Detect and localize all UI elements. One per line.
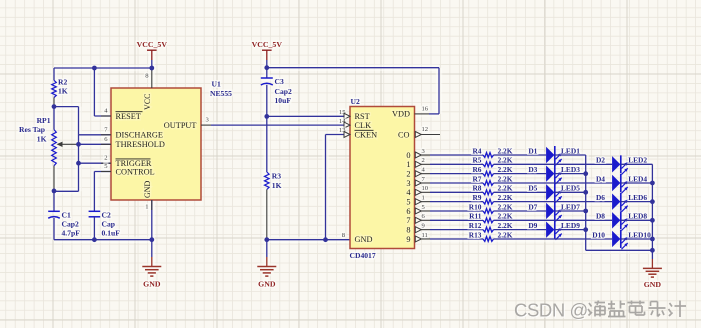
wire pin 2 to R5	[430, 163, 483, 165]
ground symbol (LED return)	[643, 250, 662, 289]
svg-text:R12: R12	[469, 221, 482, 230]
watermark CSDN	[514, 300, 686, 322]
wire D1 cathode to rail	[555, 154, 586, 156]
node R2 / RP1 junction	[52, 104, 57, 109]
wire D4 cathode to rail	[621, 182, 653, 184]
wire U1 ground rail	[54, 239, 152, 241]
svg-text:LED3: LED3	[561, 165, 580, 174]
LED D5	[528, 183, 580, 202]
svg-text:1: 1	[145, 204, 148, 211]
svg-text:3: 3	[406, 179, 410, 188]
wire pin 3 to R4	[430, 154, 483, 156]
svg-text:2.2K: 2.2K	[498, 221, 513, 230]
svg-text:CD4017: CD4017	[350, 251, 376, 260]
wire R9 to D6	[494, 201, 613, 203]
wire D8 cathode to rail	[621, 219, 653, 221]
svg-text:GND: GND	[258, 280, 276, 289]
node rail junction row 4	[650, 181, 655, 186]
svg-text:LED10: LED10	[628, 230, 651, 239]
wire pin 5 to R10	[430, 210, 483, 212]
LED D2	[596, 155, 647, 174]
svg-text:R2: R2	[58, 78, 67, 87]
svg-text:LED7: LED7	[561, 202, 580, 211]
svg-text:0: 0	[406, 151, 410, 160]
svg-text:U1: U1	[212, 80, 221, 89]
U1 pin 4 RESET	[101, 108, 143, 121]
resistor R6 2.2K	[472, 165, 512, 176]
wire left LED cathode rail	[585, 155, 587, 250]
svg-text:2.2K: 2.2K	[498, 202, 513, 211]
node rail junction row 10	[650, 237, 655, 242]
wire D6 cathode to rail	[621, 201, 653, 203]
wire top rail VCC to U1	[54, 67, 152, 69]
LED D8	[596, 211, 647, 230]
svg-text:CONTROL: CONTROL	[116, 167, 155, 176]
svg-text:2.2K: 2.2K	[498, 174, 513, 183]
wire R2 bottom to junction	[53, 98, 55, 107]
U2 output 2 pin 4	[406, 167, 430, 179]
wire pin 4 to R6	[430, 173, 483, 175]
svg-text:2.2K: 2.2K	[498, 165, 513, 174]
wire D3 cathode to rail	[555, 173, 586, 175]
svg-text:THRESHOLD: THRESHOLD	[116, 140, 165, 149]
wire vertical THRESHOLD/TRIGGER rail	[78, 135, 80, 192]
wire rail bottom link	[586, 249, 653, 251]
U2 output 1 pin 2	[406, 157, 430, 169]
wire pin 10 to R8	[430, 191, 483, 193]
svg-text:1K: 1K	[58, 87, 68, 96]
svg-text:CKEN: CKEN	[355, 130, 378, 139]
svg-text:R6: R6	[472, 165, 481, 174]
svg-text:8: 8	[406, 225, 410, 234]
resistor R8 2.2K	[472, 184, 512, 195]
node C2 / gnd rail	[92, 237, 97, 242]
wire D10 cathode to rail	[621, 238, 653, 240]
node rail junction row 8	[650, 218, 655, 223]
svg-text:4.7pF: 4.7pF	[62, 229, 81, 238]
svg-text:LED8: LED8	[628, 212, 647, 221]
wire R5 to D2	[494, 163, 613, 165]
node C3 / RST branch	[264, 114, 269, 119]
U1 pin 6 THRESHOLD	[101, 136, 165, 149]
svg-text:2: 2	[422, 157, 425, 164]
node VCC rail / R2 junction	[92, 66, 97, 71]
svg-text:VCC_5V: VCC_5V	[137, 40, 168, 49]
wire R10 to D7	[494, 210, 547, 212]
wire VCC rail to U2 VDD	[267, 68, 439, 114]
svg-text:0.1uF: 0.1uF	[102, 229, 121, 238]
U2 pin 13 CKEN	[339, 127, 377, 139]
svg-text:C1: C1	[62, 211, 71, 220]
resistor R13 2.2K	[469, 230, 513, 241]
wire R4 to D1	[494, 154, 547, 156]
svg-text:CO: CO	[398, 130, 410, 139]
svg-text:DISCHARGE: DISCHARGE	[116, 131, 163, 140]
node rails junction	[650, 248, 655, 253]
svg-text:GND: GND	[644, 280, 662, 289]
svg-text:CLK: CLK	[355, 121, 372, 130]
LED D10	[592, 230, 651, 249]
svg-text:11: 11	[422, 232, 428, 239]
svg-text:U2: U2	[351, 97, 360, 106]
svg-text:Cap2: Cap2	[62, 220, 80, 229]
U1 pin 8 VCC	[143, 68, 152, 110]
wire U2 ground rail	[267, 239, 350, 241]
svg-text:12: 12	[422, 126, 429, 133]
svg-text:R8: R8	[472, 184, 481, 193]
svg-text:D4: D4	[596, 174, 605, 183]
svg-text:R10: R10	[469, 202, 482, 211]
svg-text:6: 6	[406, 207, 410, 216]
svg-text:CSDN @: CSDN @	[514, 300, 588, 321]
IC U2 CD4017 body	[350, 97, 415, 260]
svg-text:D1: D1	[528, 146, 537, 155]
wire U1 pin 5 to C2	[94, 171, 111, 173]
wire pin 1 to R9	[430, 201, 483, 203]
node pin2 junction	[76, 161, 81, 166]
svg-text:LED1: LED1	[561, 146, 580, 155]
node rail junction row 5	[583, 190, 588, 195]
svg-text:2.2K: 2.2K	[498, 146, 513, 155]
wire R11 to D8	[494, 219, 613, 221]
wire R7 to D4	[494, 182, 613, 184]
svg-text:2.2K: 2.2K	[498, 156, 513, 165]
svg-text:LED5: LED5	[561, 184, 580, 193]
svg-text:1K: 1K	[37, 134, 47, 143]
svg-text:D6: D6	[596, 193, 605, 202]
node rail junction row 3	[583, 171, 588, 176]
resistor R4 2.2K	[472, 146, 512, 157]
svg-text:VDD: VDD	[392, 110, 410, 119]
ground symbol (under R3)	[257, 240, 276, 289]
svg-text:R13: R13	[469, 230, 482, 239]
wire CKEN to ground	[325, 135, 327, 240]
wire D9 cathode to rail	[555, 229, 586, 231]
svg-text:LED4: LED4	[628, 174, 647, 183]
U2 pin 12 CO	[398, 126, 440, 139]
svg-text:VCC_5V: VCC_5V	[252, 40, 283, 49]
svg-text:VCC: VCC	[143, 94, 152, 110]
svg-text:D2: D2	[596, 156, 605, 165]
U2 pin 16 VDD	[392, 105, 429, 118]
U1 pin 1 GND	[143, 180, 152, 239]
wire R12 to D9	[494, 229, 547, 231]
node RP1 bottom junction	[52, 189, 57, 194]
svg-text:NE555: NE555	[210, 89, 232, 98]
wire to U1 pin 2	[79, 162, 112, 164]
svg-text:C2: C2	[102, 211, 111, 220]
svg-text:C3: C3	[275, 77, 284, 86]
wire pin 6 to R11	[430, 219, 483, 221]
wire R13 to D10	[494, 238, 613, 240]
svg-text:D10: D10	[592, 230, 605, 239]
wire D5 cathode to rail	[555, 191, 586, 193]
svg-text:1: 1	[406, 160, 410, 169]
wire RESET branch	[94, 68, 111, 116]
resistor R7 2.2K	[472, 174, 512, 185]
wire rail bottom to RP1 bottom	[54, 190, 79, 192]
svg-text:Res Tap: Res Tap	[19, 125, 45, 134]
svg-text:RESET: RESET	[116, 112, 141, 121]
wire D7 cathode to rail	[555, 210, 586, 212]
svg-text:R4: R4	[472, 146, 481, 155]
svg-text:GND: GND	[143, 280, 161, 289]
svg-text:2.2K: 2.2K	[498, 193, 513, 202]
resistor R5 2.2K	[472, 156, 512, 167]
capacitor C1	[48, 191, 80, 240]
svg-text:2.2K: 2.2K	[498, 230, 513, 239]
U2 output 8 pin 9	[406, 223, 430, 235]
svg-text:D3: D3	[528, 165, 537, 174]
svg-text:2: 2	[104, 155, 107, 162]
svg-text:LED6: LED6	[628, 193, 647, 202]
resistor R11 2.2K	[469, 212, 513, 223]
capacitor C3	[261, 68, 292, 117]
LED D6	[596, 193, 647, 212]
svg-text:RST: RST	[355, 112, 370, 121]
svg-text:1: 1	[422, 195, 425, 202]
svg-text:GND: GND	[143, 180, 152, 198]
wire left rail to R2	[53, 68, 55, 80]
resistor R12 2.2K	[469, 221, 513, 232]
svg-text:5: 5	[406, 197, 410, 206]
ground symbol (under U1)	[142, 240, 161, 289]
U1 pin 5 CONTROL	[101, 163, 155, 176]
resistor R10 2.2K	[469, 202, 513, 213]
LED D3	[528, 165, 580, 184]
wire D2 cathode to rail	[621, 163, 653, 165]
U1 pin 3 OUTPUT	[164, 117, 211, 130]
svg-text:R11: R11	[469, 212, 482, 221]
svg-text:OUTPUT: OUTPUT	[164, 121, 197, 130]
resistor R2	[52, 78, 68, 98]
svg-text:R3: R3	[272, 172, 281, 181]
wire to U1 pin 7	[79, 134, 112, 136]
op-amp U1 NE555 body	[111, 80, 232, 201]
node pin6 wiper junction	[76, 142, 81, 147]
svg-text:R9: R9	[472, 193, 481, 202]
node R3 / gnd rail	[264, 237, 269, 242]
U2 pin 14 CLK	[339, 118, 371, 130]
svg-text:D8: D8	[596, 212, 605, 221]
node CKEN / gnd rail	[323, 237, 328, 242]
LED D1	[528, 146, 580, 165]
svg-text:9: 9	[406, 235, 410, 244]
U2 pin 8 GND	[342, 232, 373, 244]
U2 output 9 pin 11	[406, 232, 430, 244]
capacitor C2	[89, 172, 121, 240]
svg-text:R5: R5	[472, 156, 481, 165]
wire C3 to U2 pin 15 RST	[267, 115, 344, 117]
U2 output 4 pin 10	[406, 185, 430, 197]
U2 output 7 pin 6	[406, 213, 430, 225]
power VCC_5V (middle, net to C3 / U2 VDD)	[252, 40, 283, 68]
resistor R9 2.2K	[472, 193, 512, 204]
power VCC_5V (left, net to U1 pin 8)	[137, 40, 168, 68]
U1 pin 2 TRIGGER	[101, 155, 152, 168]
svg-text:2.2K: 2.2K	[498, 184, 513, 193]
wire pin 11 to R13	[430, 238, 483, 240]
wire pin 7 to R7	[430, 182, 483, 184]
wire R8 to D5	[494, 191, 547, 193]
wire R6 to D3	[494, 173, 547, 175]
svg-text:2: 2	[406, 169, 410, 178]
svg-text:7: 7	[406, 216, 410, 225]
node VCC rail / U1 pin8 junction	[149, 66, 154, 71]
node rail junction row 6	[650, 199, 655, 204]
svg-text:Cap: Cap	[102, 220, 116, 229]
resistor R3	[265, 116, 282, 239]
U2 output 6 pin 5	[406, 204, 430, 216]
LED D4	[596, 174, 647, 193]
svg-text:1K: 1K	[272, 181, 282, 190]
svg-text:R7: R7	[472, 174, 481, 183]
node VCC / C3 junction	[264, 65, 269, 70]
U2 output 5 pin 1	[406, 195, 430, 207]
node rail junction row 7	[583, 209, 588, 214]
wire junction to DISCHARGE branch	[54, 106, 79, 108]
svg-text:10: 10	[422, 185, 429, 192]
svg-text:16: 16	[422, 105, 429, 112]
U1 pin 7 DISCHARGE	[101, 126, 163, 139]
svg-text:LED2: LED2	[628, 156, 647, 165]
LED D9	[528, 221, 580, 240]
U2 pin 15 RST	[339, 109, 370, 121]
wire pin 9 to R12	[430, 229, 483, 231]
svg-text:GND: GND	[355, 235, 373, 244]
wire right LED cathode rail	[651, 164, 653, 250]
LED D7	[528, 202, 580, 221]
svg-text:RP1: RP1	[37, 116, 51, 125]
node rail junction row 9	[583, 227, 588, 232]
U2 output 3 pin 7	[406, 176, 430, 188]
node U1 pin1 / gnd rail	[149, 237, 154, 242]
wire to U1 pin 6	[79, 143, 112, 145]
wire U1 OUTPUT to U2 pin 14 CLK	[211, 124, 344, 126]
svg-text:2.2K: 2.2K	[498, 212, 513, 221]
svg-text:D5: D5	[528, 184, 537, 193]
svg-text:Cap2: Cap2	[275, 87, 293, 96]
U2 output 0 pin 3	[406, 148, 430, 160]
svg-text:D7: D7	[528, 202, 537, 211]
svg-text:D9: D9	[528, 221, 537, 230]
potentiometer RP1	[19, 107, 78, 191]
svg-text:LED9: LED9	[561, 221, 580, 230]
svg-text:10uF: 10uF	[275, 96, 292, 105]
